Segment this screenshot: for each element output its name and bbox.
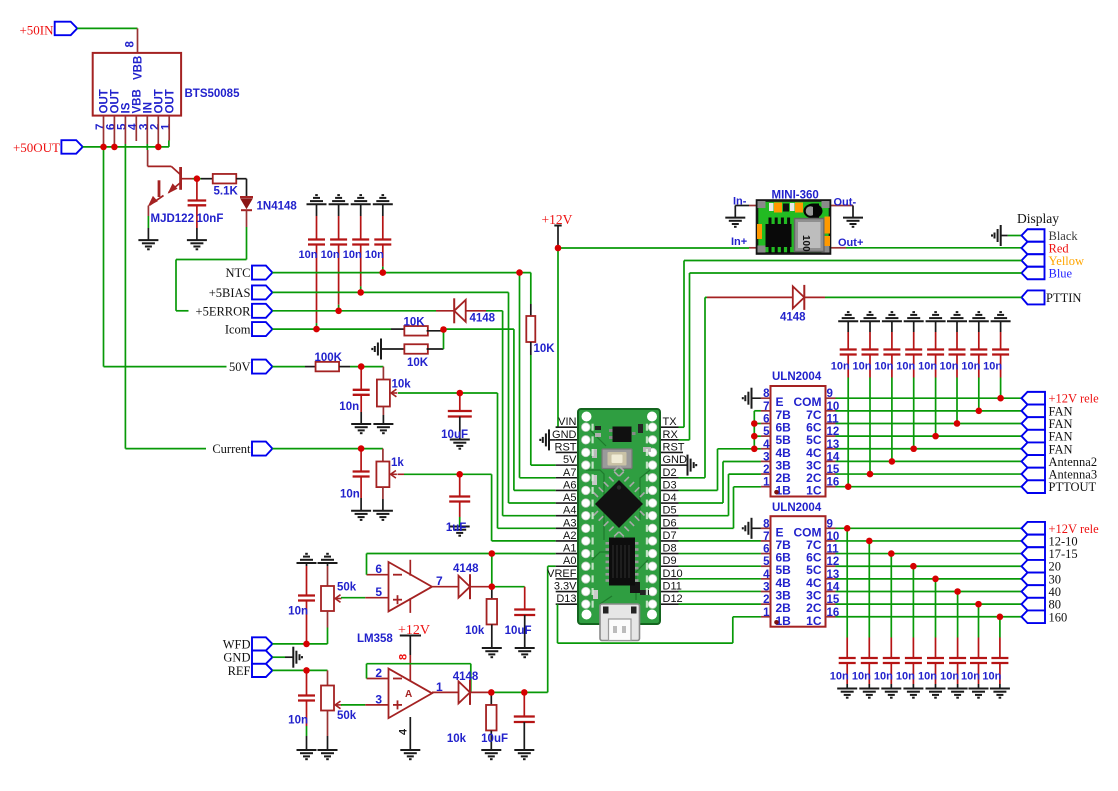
svg-text:4148: 4148: [470, 313, 496, 325]
svg-text:1: 1: [763, 477, 770, 489]
svg-text:9: 9: [827, 518, 833, 530]
svg-text:A1: A1: [563, 543, 576, 555]
svg-text:10n: 10n: [852, 671, 871, 683]
svg-text:10K: 10K: [407, 357, 429, 369]
svg-text:+50IN: +50IN: [19, 23, 54, 38]
svg-text:10k: 10k: [392, 379, 412, 391]
svg-text:100K: 100K: [315, 352, 343, 364]
svg-text:A0: A0: [563, 555, 576, 567]
svg-text:8: 8: [763, 388, 770, 400]
svg-text:ULN2004: ULN2004: [772, 371, 822, 383]
svg-text:10n: 10n: [830, 671, 849, 683]
svg-text:1k: 1k: [391, 457, 404, 469]
svg-text:10n: 10n: [940, 671, 959, 683]
svg-text:5.1K: 5.1K: [214, 186, 239, 198]
svg-text:100: 100: [800, 235, 811, 252]
svg-text:8: 8: [398, 654, 410, 660]
svg-text:10n: 10n: [339, 401, 359, 413]
svg-text:7: 7: [763, 531, 769, 543]
svg-text:1C: 1C: [806, 484, 822, 498]
svg-text:1N4148: 1N4148: [257, 201, 298, 213]
svg-text:Icom: Icom: [225, 323, 251, 337]
svg-text:D8: D8: [663, 543, 677, 555]
svg-text:10n: 10n: [940, 361, 959, 373]
svg-text:OUT: OUT: [164, 89, 176, 113]
svg-text:10n: 10n: [874, 671, 893, 683]
svg-text:10n: 10n: [961, 671, 980, 683]
svg-text:D9: D9: [663, 555, 677, 567]
svg-text:BTS50085: BTS50085: [185, 88, 241, 100]
svg-text:3: 3: [763, 582, 769, 594]
svg-text:A4: A4: [563, 505, 576, 517]
svg-text:10k: 10k: [447, 733, 467, 745]
svg-text:RST: RST: [555, 441, 577, 453]
svg-text:4: 4: [763, 439, 770, 451]
svg-text:4148: 4148: [453, 563, 479, 575]
svg-text:Current: Current: [212, 442, 251, 456]
svg-text:10n: 10n: [365, 249, 384, 261]
svg-text:PTTOUT: PTTOUT: [1049, 480, 1097, 494]
svg-text:D3: D3: [663, 479, 677, 491]
svg-text:In-: In-: [733, 196, 747, 208]
svg-text:10n: 10n: [961, 361, 980, 373]
svg-text:10n: 10n: [299, 249, 318, 261]
svg-text:6: 6: [763, 544, 769, 556]
svg-text:1: 1: [763, 607, 770, 619]
svg-text:3.3V: 3.3V: [554, 581, 577, 593]
svg-text:VIN: VIN: [558, 416, 576, 428]
svg-text:In+: In+: [731, 236, 747, 248]
svg-text:6: 6: [763, 413, 769, 425]
svg-text:VREF: VREF: [547, 568, 577, 580]
svg-text:10n: 10n: [983, 361, 1002, 373]
svg-text:3: 3: [763, 451, 769, 463]
svg-text:9: 9: [827, 388, 833, 400]
svg-text:10nF: 10nF: [197, 213, 224, 225]
svg-text:+5ERROR: +5ERROR: [196, 304, 252, 318]
svg-text:2: 2: [763, 464, 769, 476]
svg-text:D6: D6: [663, 517, 677, 529]
svg-text:10K: 10K: [534, 343, 556, 355]
svg-text:D7: D7: [663, 530, 677, 542]
svg-text:RX: RX: [663, 429, 679, 441]
svg-text:A2: A2: [563, 530, 576, 542]
svg-text:160: 160: [1049, 610, 1068, 624]
svg-text:5: 5: [763, 426, 770, 438]
svg-text:+50OUT: +50OUT: [13, 140, 60, 155]
svg-text:D2: D2: [663, 467, 677, 479]
svg-text:10n: 10n: [321, 249, 340, 261]
svg-text:A5: A5: [563, 492, 576, 504]
svg-text:2: 2: [763, 594, 769, 606]
svg-text:50k: 50k: [337, 710, 357, 722]
svg-text:10n: 10n: [918, 361, 937, 373]
svg-text:10n: 10n: [982, 671, 1001, 683]
svg-text:D5: D5: [663, 505, 677, 517]
svg-text:ULN2004: ULN2004: [772, 502, 822, 514]
svg-text:10n: 10n: [340, 489, 360, 501]
svg-text:PTTIN: PTTIN: [1046, 291, 1081, 305]
svg-text:10uF: 10uF: [481, 733, 508, 745]
svg-text:1uF: 1uF: [446, 522, 466, 534]
svg-text:1C: 1C: [806, 614, 822, 628]
svg-text:8: 8: [763, 518, 770, 530]
svg-text:A7: A7: [563, 467, 576, 479]
svg-text:A: A: [405, 689, 412, 700]
svg-text:VBB: VBB: [133, 56, 145, 80]
svg-text:10K: 10K: [404, 317, 426, 329]
svg-text:Blue: Blue: [1049, 267, 1073, 281]
svg-text:4: 4: [398, 728, 410, 735]
svg-text:10n: 10n: [831, 361, 850, 373]
svg-text:WFD: WFD: [223, 637, 251, 651]
svg-text:10n: 10n: [896, 671, 915, 683]
svg-text:5V: 5V: [563, 454, 577, 466]
svg-text:D4: D4: [663, 492, 677, 504]
svg-text:RST: RST: [663, 441, 685, 453]
svg-text:10n: 10n: [288, 606, 308, 618]
svg-text:10k: 10k: [465, 625, 485, 637]
svg-text:10n: 10n: [874, 361, 893, 373]
svg-text:50V: 50V: [229, 360, 251, 374]
svg-text:50k: 50k: [337, 582, 357, 594]
svg-text:10n: 10n: [853, 361, 872, 373]
svg-text:GND: GND: [223, 651, 250, 665]
svg-text:GND: GND: [552, 429, 577, 441]
svg-text:TX: TX: [663, 416, 678, 428]
svg-text:Out-: Out-: [834, 197, 857, 209]
svg-text:10uF: 10uF: [505, 625, 532, 637]
svg-text:MJD122: MJD122: [151, 213, 194, 225]
svg-text:10n: 10n: [288, 715, 308, 727]
svg-text:1: 1: [161, 123, 173, 130]
svg-text:4148: 4148: [453, 671, 479, 683]
svg-text:7: 7: [763, 401, 769, 413]
svg-text:4: 4: [763, 569, 770, 581]
svg-text:8: 8: [125, 41, 137, 48]
svg-text:Out+: Out+: [838, 237, 863, 249]
svg-text:10n: 10n: [343, 249, 362, 261]
svg-text:REF: REF: [228, 664, 251, 678]
svg-text:5: 5: [763, 556, 770, 568]
svg-text:10uF: 10uF: [441, 429, 468, 441]
svg-text:10n: 10n: [918, 671, 937, 683]
svg-text:10n: 10n: [896, 361, 915, 373]
svg-text:A6: A6: [563, 479, 576, 491]
svg-text:NTC: NTC: [226, 266, 251, 280]
svg-text:+5BIAS: +5BIAS: [209, 286, 251, 300]
svg-text:4148: 4148: [780, 312, 806, 324]
svg-text:Display: Display: [1017, 211, 1059, 226]
svg-text:A3: A3: [563, 517, 576, 529]
svg-text:LM358: LM358: [357, 633, 393, 645]
svg-text:D13: D13: [556, 593, 576, 605]
